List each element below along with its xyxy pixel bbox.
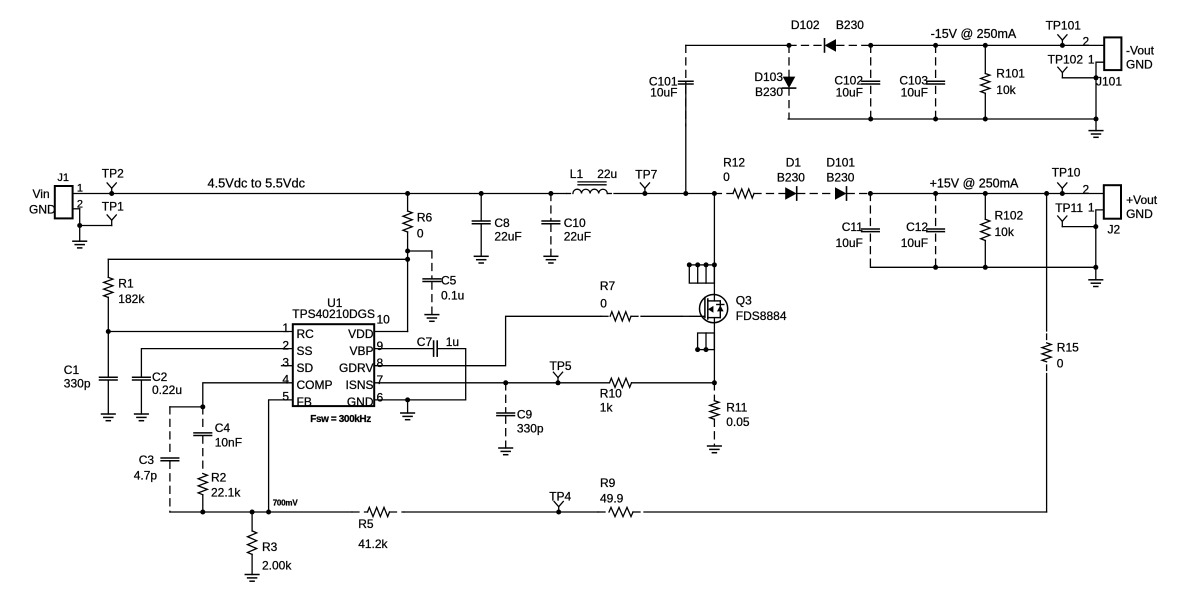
wire R12 to D1 dashed [754,193,787,195]
svg-text:R7: R7 [600,279,616,293]
test point TP11 [1055,201,1083,227]
svg-text:10uF: 10uF [901,236,928,250]
wire TP11 to J2 pin1 [1062,226,1096,228]
wire feedback middle [404,511,598,513]
svg-text:J101: J101 [1096,75,1122,89]
svg-text:GND: GND [1126,58,1153,72]
svg-text:R1: R1 [118,277,134,291]
transistor Q3 FDS8884 [687,262,787,352]
svg-text:RC: RC [297,327,315,341]
svg-text:Vin: Vin [33,187,50,201]
svg-text:+Vout: +Vout [1126,193,1158,207]
svg-text:R11: R11 [726,401,747,415]
svg-text:B230: B230 [836,18,864,32]
wire R7 to Q3 gate [641,315,682,317]
svg-text:C3: C3 [139,453,155,467]
node R6/R1 junction [405,257,410,262]
svg-text:10uF: 10uF [650,86,677,100]
svg-text:L1: L1 [570,167,584,181]
svg-text:10k: 10k [996,83,1016,97]
svg-text:C12: C12 [906,220,928,234]
svg-text:330p: 330p [517,422,544,436]
svg-text:R6: R6 [417,211,433,225]
svg-text:1u: 1u [446,335,459,349]
node GND pin junction [405,397,410,402]
wire GDRV pin wire [374,316,601,365]
svg-text:2: 2 [282,338,289,352]
svg-text:ISNS: ISNS [345,378,373,392]
svg-text:0.1u: 0.1u [441,289,464,303]
node R6/C5 junction [405,249,410,254]
wire +15V rail [870,193,1103,195]
resistor R2 [198,471,241,513]
svg-text:SD: SD [297,361,314,375]
svg-text:10k: 10k [995,225,1015,239]
svg-text:D1: D1 [786,156,802,170]
svg-text:D103: D103 [754,70,783,84]
svg-text:B230: B230 [777,171,805,185]
svg-text:C8: C8 [494,216,510,230]
test point TP2 [102,167,124,197]
node J1 pin2 gnd junction [77,223,82,228]
node bus C102 [868,117,873,122]
inductor L1 [567,167,618,194]
svg-text:22u: 22u [597,167,617,181]
node bus R102 [983,265,988,270]
node bus C12 [933,265,938,270]
resistor R3 [245,510,292,582]
svg-text:0: 0 [723,170,730,184]
diode D101 [826,156,855,201]
capacitor C9 [497,380,544,454]
wire to D102 dashed [789,44,825,46]
svg-text:41.2k: 41.2k [358,537,388,551]
svg-text:D102: D102 [791,18,820,32]
svg-text:FB: FB [297,395,312,409]
wire -15V rail right [871,44,1104,46]
svg-text:C10: C10 [564,216,586,230]
svg-text:10nF: 10nF [215,435,242,449]
capacitor C7 [417,335,459,356]
test point TP10 [1052,166,1081,197]
wire COMP pin wire [203,383,293,407]
capacitor C2 [133,370,182,421]
diode D102 [791,18,864,52]
node bus R101 [983,117,988,122]
wire feedback right to R15 [644,511,1047,513]
connector J101 [1083,35,1155,89]
wire TP102 to J101 pin1 [1062,77,1096,79]
connector J1 [29,172,83,218]
node Q3 source junction [712,380,717,385]
svg-text:182k: 182k [118,292,145,306]
resistor R102 [981,191,1024,267]
svg-text:2: 2 [1083,183,1090,197]
capacitor C11 [836,191,880,267]
wire COMP node to C3 [170,406,203,408]
svg-text:7: 7 [377,373,384,387]
wire J1 pin2 to ground [79,209,81,226]
wire FB pin to feedback net [269,400,293,512]
svg-text:49.9: 49.9 [600,492,624,506]
wire TP1 to gnd node [80,225,112,227]
svg-text:TP11: TP11 [1055,201,1083,215]
svg-text:1: 1 [1088,53,1095,67]
svg-text:8: 8 [377,356,384,370]
node J101 pin1 junction [1094,75,1099,80]
capacitor C5 [408,251,465,321]
svg-text:4: 4 [282,373,289,387]
svg-text:TP10: TP10 [1052,166,1081,180]
resistor R10 [600,378,632,414]
svg-text:22uF: 22uF [564,230,591,244]
svg-text:R3: R3 [262,540,278,554]
test point TP102 [1048,53,1084,78]
resistor R1 [104,259,146,331]
wire branch up to -15V rail [685,82,687,193]
svg-text:0: 0 [600,297,607,311]
wire J101 pin1 [1096,62,1104,78]
svg-text:1: 1 [282,321,289,335]
svg-text:C5: C5 [441,274,457,288]
svg-text:-15V @ 250mA: -15V @ 250mA [931,27,1017,41]
connector J2 [1083,183,1158,237]
wire D1 to D101 dashed [798,193,835,195]
svg-text:1: 1 [77,183,83,195]
svg-text:TPS40210DGS: TPS40210DGS [292,307,375,321]
svg-text:6: 6 [377,390,384,404]
svg-text:9: 9 [377,339,384,353]
svg-text:R10: R10 [600,387,622,401]
wire C101 lower lead dashed [685,86,687,126]
wire rail dashed to R12 [714,193,733,195]
test point TP101 [1046,18,1082,48]
wire ISNS pin wire [374,382,609,384]
svg-text:VDD: VDD [348,327,374,341]
svg-text:B230: B230 [755,85,783,99]
svg-text:5: 5 [282,390,289,404]
test point TP5 [550,359,572,385]
svg-text:C11: C11 [842,220,863,234]
node D103 junction [787,43,792,48]
svg-text:R5: R5 [358,517,374,531]
node bus C103 [933,117,938,122]
svg-text:SS: SS [297,344,313,358]
wire R10 to Q3 source node [632,382,715,384]
wire Q3 source to junction [713,318,715,383]
svg-text:3: 3 [282,355,289,369]
svg-text:R9: R9 [600,476,616,490]
resistor R7 [600,279,641,321]
wire C7 to GND return [374,349,466,400]
resistor R5 [352,507,404,551]
svg-text:R12: R12 [723,156,745,170]
wire D102 to C102 dashed [837,44,871,46]
wire J2 pin1 [1096,210,1104,227]
resistor R6 [403,191,433,251]
svg-text:2.00k: 2.00k [262,559,292,573]
svg-text:TP5: TP5 [550,359,572,373]
svg-text:R2: R2 [211,471,227,485]
svg-text:4.5Vdc to 5.5Vdc: 4.5Vdc to 5.5Vdc [208,176,306,191]
svg-text:FDS8884: FDS8884 [736,309,787,323]
capacitor C101 [679,45,693,84]
wire RC pin wire [108,331,292,333]
svg-text:1: 1 [1088,201,1095,215]
ground J101 [1089,78,1103,138]
svg-text:700mV: 700mV [273,499,299,508]
test point TP7 [635,167,657,196]
ground J1 [73,226,87,248]
op-amp U1 TPS40210DGS [282,296,376,409]
node COMP junction [200,404,205,409]
wire VDD vertical [407,251,409,332]
svg-text:C9: C9 [517,408,533,422]
svg-text:GND: GND [29,203,56,217]
svg-text:Q3: Q3 [736,294,752,308]
wire -15V ground bus [788,118,1096,120]
svg-text:2: 2 [1083,35,1090,49]
svg-text:J2: J2 [1108,223,1121,237]
svg-text:GDRV: GDRV [339,361,373,375]
svg-text:10uF: 10uF [901,86,928,100]
wire VDD pin wire [374,331,407,333]
node C101 branch junction [683,191,688,196]
svg-text:TP4: TP4 [549,490,571,504]
svg-text:10: 10 [377,313,391,327]
wire Q3 drain from rail [712,191,717,196]
svg-text:C7: C7 [417,335,433,349]
wire R1 top to VDD node [108,258,407,260]
svg-text:D101: D101 [826,156,855,170]
resistor R11 [708,383,750,453]
svg-text:22uF: 22uF [494,230,521,244]
svg-text:10uF: 10uF [836,236,863,250]
ground J2 [1089,227,1103,287]
ground U1 GND pin [401,400,415,420]
node FB junction [266,510,271,515]
svg-text:J1: J1 [57,172,69,184]
capacitor C12 [901,191,945,267]
resistor R15 [1042,191,1079,512]
svg-text:0.05: 0.05 [726,415,750,429]
svg-text:Fsw = 300kHz: Fsw = 300kHz [310,414,371,425]
svg-text:R101: R101 [996,67,1025,81]
diode D1 [777,156,805,201]
svg-text:GND: GND [1126,207,1153,221]
resistor R12 [723,156,754,199]
svg-text:VBP: VBP [349,344,373,358]
svg-text:0: 0 [417,227,424,241]
svg-text:330p: 330p [64,377,91,391]
capacitor C4 [194,407,242,474]
node bus J101 gnd [1094,117,1099,122]
svg-text:C1: C1 [64,363,80,377]
resistor R101 [981,43,1026,119]
wire feedback bottom left [170,511,352,513]
wire main input rail J1 to L1 [73,193,566,195]
svg-text:10uF: 10uF [836,86,863,100]
wire +15V ground bus [870,266,1095,268]
capacitor C10 [542,191,591,263]
svg-text:TP2: TP2 [102,167,124,181]
node J2 pin1 junction [1093,224,1098,229]
svg-text:TP7: TP7 [635,167,657,181]
wire D101 to C11 node dashed [847,193,870,195]
svg-text:22.1k: 22.1k [211,486,241,500]
diode D103 [754,45,795,119]
capacitor C1 [64,332,117,421]
svg-text:C4: C4 [215,421,231,435]
svg-text:TP101: TP101 [1046,18,1082,32]
svg-text:COMP: COMP [297,378,333,392]
node bus J2 gnd [1093,265,1098,270]
svg-text:R15: R15 [1057,341,1079,355]
svg-text:+15V @ 250mA: +15V @ 250mA [930,177,1019,191]
svg-text:-Vout: -Vout [1126,44,1155,58]
node RC junction [106,329,111,334]
test point TP1 [102,199,124,225]
svg-text:4.7p: 4.7p [134,469,158,483]
capacitor C102 [834,43,879,119]
capacitor C3 [134,407,179,512]
wire SS pin wire [141,349,292,377]
svg-text:1k: 1k [600,401,614,415]
capacitor C103 [899,43,944,119]
test point TP4 [549,490,571,515]
svg-text:R102: R102 [995,209,1024,223]
svg-text:B230: B230 [826,171,854,185]
wire L1 to Q3 drain node [614,193,714,195]
wire -15V rail top [686,44,789,46]
svg-text:GND: GND [347,395,374,409]
capacitor C8 [472,191,521,263]
svg-text:0.22u: 0.22u [152,383,182,397]
svg-text:0: 0 [1057,357,1064,371]
svg-text:TP1: TP1 [102,199,124,213]
wire VBP pin wire [374,348,433,350]
svg-text:C2: C2 [152,370,168,384]
svg-text:TP102: TP102 [1048,53,1084,67]
node R2 bottom junction [200,510,205,515]
resistor R9 [598,476,644,517]
